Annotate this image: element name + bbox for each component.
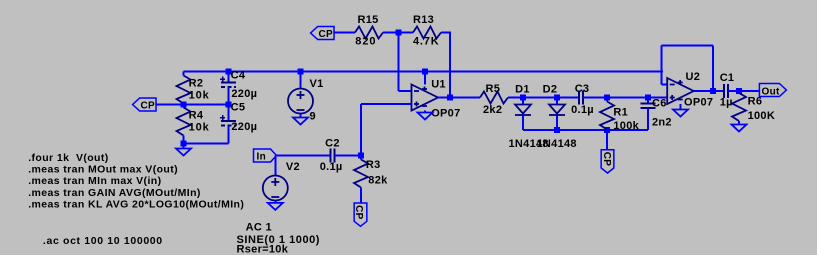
node junction V1 on rail bbox=[298, 69, 304, 75]
svg-text:Rser=10k: Rser=10k bbox=[237, 243, 289, 255]
capacitor C4 (polarized) bbox=[228, 72, 230, 83]
svg-text:OP07: OP07 bbox=[431, 108, 460, 120]
resistor R2 bbox=[183, 72, 185, 76]
svg-text:R6: R6 bbox=[748, 96, 763, 108]
svg-text:1N4148: 1N4148 bbox=[537, 138, 577, 150]
ground below R4 bbox=[183, 144, 185, 149]
svg-text:U1: U1 bbox=[431, 79, 446, 91]
ground below U1 bbox=[418, 113, 433, 120]
svg-text:10k: 10k bbox=[189, 90, 210, 102]
wire: D2 to C3 bbox=[557, 97, 579, 99]
svg-text:CP: CP bbox=[353, 205, 364, 220]
svg-text:820: 820 bbox=[355, 36, 376, 48]
svg-text:R2: R2 bbox=[189, 78, 204, 90]
port flag CP upper left bbox=[311, 27, 334, 40]
resistor R15 bbox=[355, 27, 383, 39]
node junction R4 bottom / C5 bottom / ground bbox=[181, 141, 187, 147]
wire: C1 to Out node bbox=[728, 90, 739, 92]
ground below V2 bbox=[268, 203, 283, 210]
wire: R1 bottom to CP flag bbox=[606, 130, 608, 150]
svg-text:D2: D2 bbox=[543, 84, 558, 96]
svg-text:0.1µ: 0.1µ bbox=[571, 104, 594, 116]
svg-text:V1: V1 bbox=[310, 78, 324, 90]
wire: main line D1 to D2 bbox=[523, 97, 557, 99]
node junction C1 / R6 / Out bbox=[736, 88, 742, 94]
node junction C4 top on rail bbox=[226, 69, 232, 75]
capacitor C5 (polarized) bbox=[228, 105, 230, 122]
svg-text:C1: C1 bbox=[720, 72, 735, 84]
wire: CP flag to R15 bbox=[334, 32, 355, 34]
wire: R1 node to C6 node bbox=[607, 97, 648, 99]
port flag CP below R1 bbox=[601, 150, 614, 173]
capacitor C1 bbox=[724, 84, 728, 98]
svg-text:D1: D1 bbox=[515, 84, 530, 96]
svg-text:R4: R4 bbox=[189, 110, 204, 122]
wire: U2 V- pin stub bbox=[680, 104, 682, 110]
resistor R3 bbox=[360, 156, 362, 160]
resistor R13 bbox=[413, 27, 441, 39]
svg-text:220µ: 220µ bbox=[231, 121, 257, 133]
svg-text:2k2: 2k2 bbox=[483, 104, 502, 116]
resistor R4 bbox=[183, 105, 185, 108]
svg-text:R1: R1 bbox=[613, 107, 628, 119]
node junction R15-R13-U1 inverting branch bbox=[396, 30, 402, 36]
svg-text:R5: R5 bbox=[486, 83, 501, 95]
svg-text:82k: 82k bbox=[368, 175, 388, 187]
node junction C4/C5/R2R4 level bbox=[226, 102, 232, 108]
svg-text:220µ: 220µ bbox=[231, 88, 257, 100]
capacitor C2 bbox=[330, 149, 334, 163]
svg-text:.ac oct 100 10 100000: .ac oct 100 10 100000 bbox=[43, 235, 163, 247]
svg-text:C5: C5 bbox=[231, 102, 246, 114]
wire: diode bottom rail bbox=[523, 129, 648, 131]
node junction R2-R4-CP-C5 bbox=[181, 102, 187, 108]
svg-text:C6: C6 bbox=[652, 98, 667, 110]
svg-text:OP07: OP07 bbox=[684, 97, 713, 109]
node junction R1 bottom / CP flag bbox=[604, 127, 610, 133]
svg-text:Out: Out bbox=[762, 86, 780, 97]
svg-text:C3: C3 bbox=[575, 83, 590, 95]
svg-text:CP: CP bbox=[601, 152, 612, 167]
svg-text:U2: U2 bbox=[686, 71, 701, 83]
wire: CP flag to R2/R4 junction bbox=[156, 104, 184, 106]
svg-text:R15: R15 bbox=[358, 14, 379, 26]
svg-text:100k: 100k bbox=[613, 120, 639, 132]
wire: C3 to R1 node bbox=[583, 97, 607, 99]
wire: U1 noninverting input from C2/R3 node bbox=[361, 103, 412, 105]
port flag Out bbox=[759, 84, 786, 97]
port flag CP left mid bbox=[133, 98, 156, 111]
port flag CP below R3 bbox=[354, 203, 367, 226]
svg-text:.meas tran KL AVG 20*LOG10(MOu: .meas tran KL AVG 20*LOG10(MOut/MIn) bbox=[28, 198, 244, 210]
wire: C2 to R3 node bbox=[334, 155, 361, 157]
svg-text:In: In bbox=[257, 151, 267, 162]
wire: bottom of R4 to bottom of C5 bbox=[184, 143, 229, 145]
svg-text:.four 1k V(out): .four 1k V(out) bbox=[28, 152, 108, 164]
wire: U2 output bbox=[694, 90, 724, 92]
wire: In flag to C2 bbox=[277, 155, 331, 157]
svg-text:CP: CP bbox=[141, 100, 156, 111]
node junction U1 V+ on rail bbox=[422, 69, 428, 75]
svg-text:10k: 10k bbox=[189, 122, 210, 134]
wire: U2 feedback loop top bbox=[662, 84, 668, 86]
wire: C6 node to U2 noninverting input bbox=[648, 97, 667, 99]
svg-text:C2: C2 bbox=[325, 138, 340, 150]
wire: V+ top rail bbox=[184, 71, 664, 73]
op-amp U2 OP07 bbox=[667, 78, 694, 104]
svg-text:R3: R3 bbox=[366, 159, 381, 171]
wire: R2/R4 junction to C4/C5 junction bbox=[184, 104, 229, 106]
diode D1 1N4148 bbox=[520, 95, 526, 101]
svg-text:.meas tran GAIN AVG(MOut/MIn): .meas tran GAIN AVG(MOut/MIn) bbox=[28, 187, 201, 199]
svg-text:9: 9 bbox=[310, 111, 316, 123]
capacitor C6 bbox=[645, 95, 651, 101]
node junction U1 output / R13 feedback bbox=[447, 95, 453, 101]
port flag In bbox=[254, 149, 277, 162]
node junction D2 bottom bbox=[554, 127, 560, 133]
svg-text:.meas tran MIn max V(in): .meas tran MIn max V(in) bbox=[28, 175, 161, 187]
svg-text:1µ: 1µ bbox=[720, 97, 733, 109]
ground below R6 bbox=[732, 125, 747, 132]
wire: vertical from R15/R13 junction down to U1 inverting input bbox=[398, 33, 400, 92]
svg-text:CP: CP bbox=[319, 29, 334, 40]
svg-text:0.1µ: 0.1µ bbox=[320, 161, 343, 173]
svg-text:R13: R13 bbox=[413, 14, 434, 26]
wire: U1 V- pin stub bbox=[424, 111, 426, 113]
op-amp U1 OP07 bbox=[412, 85, 439, 111]
node junction C2 / R3 / U1 +input bbox=[358, 153, 364, 159]
svg-text:.meas tran MOut max V(out): .meas tran MOut max V(out) bbox=[28, 164, 178, 176]
svg-text:V2: V2 bbox=[286, 161, 300, 173]
node junction U2 output / feedback / C1 bbox=[710, 88, 716, 94]
voltage source V2 bbox=[274, 156, 276, 176]
wire: R15 to R13 with junction bbox=[383, 32, 413, 34]
wire: R13 right to corner down to U1 output bbox=[441, 32, 451, 34]
voltage source V1 bbox=[300, 72, 302, 89]
resistor R1 bbox=[604, 95, 610, 101]
svg-text:100K: 100K bbox=[748, 110, 776, 122]
wire: U1 V+ pin to rail bbox=[424, 72, 426, 85]
capacitor C3 bbox=[579, 91, 583, 105]
wire: R5 to D1 node bbox=[508, 97, 523, 99]
svg-text:2n2: 2n2 bbox=[652, 117, 672, 129]
svg-text:C4: C4 bbox=[231, 70, 246, 82]
wire: U1 output to R5 bbox=[438, 97, 480, 99]
resistor R5 bbox=[480, 92, 508, 104]
wire: node to Out flag bbox=[739, 90, 759, 92]
ground below U2 bbox=[673, 110, 688, 117]
svg-text:4.7K: 4.7K bbox=[413, 36, 439, 48]
diode D2 1N4148 bbox=[554, 95, 560, 101]
ground below V1 bbox=[293, 118, 308, 125]
resistor R6 bbox=[738, 91, 740, 93]
svg-text:AC 1: AC 1 bbox=[246, 221, 272, 233]
